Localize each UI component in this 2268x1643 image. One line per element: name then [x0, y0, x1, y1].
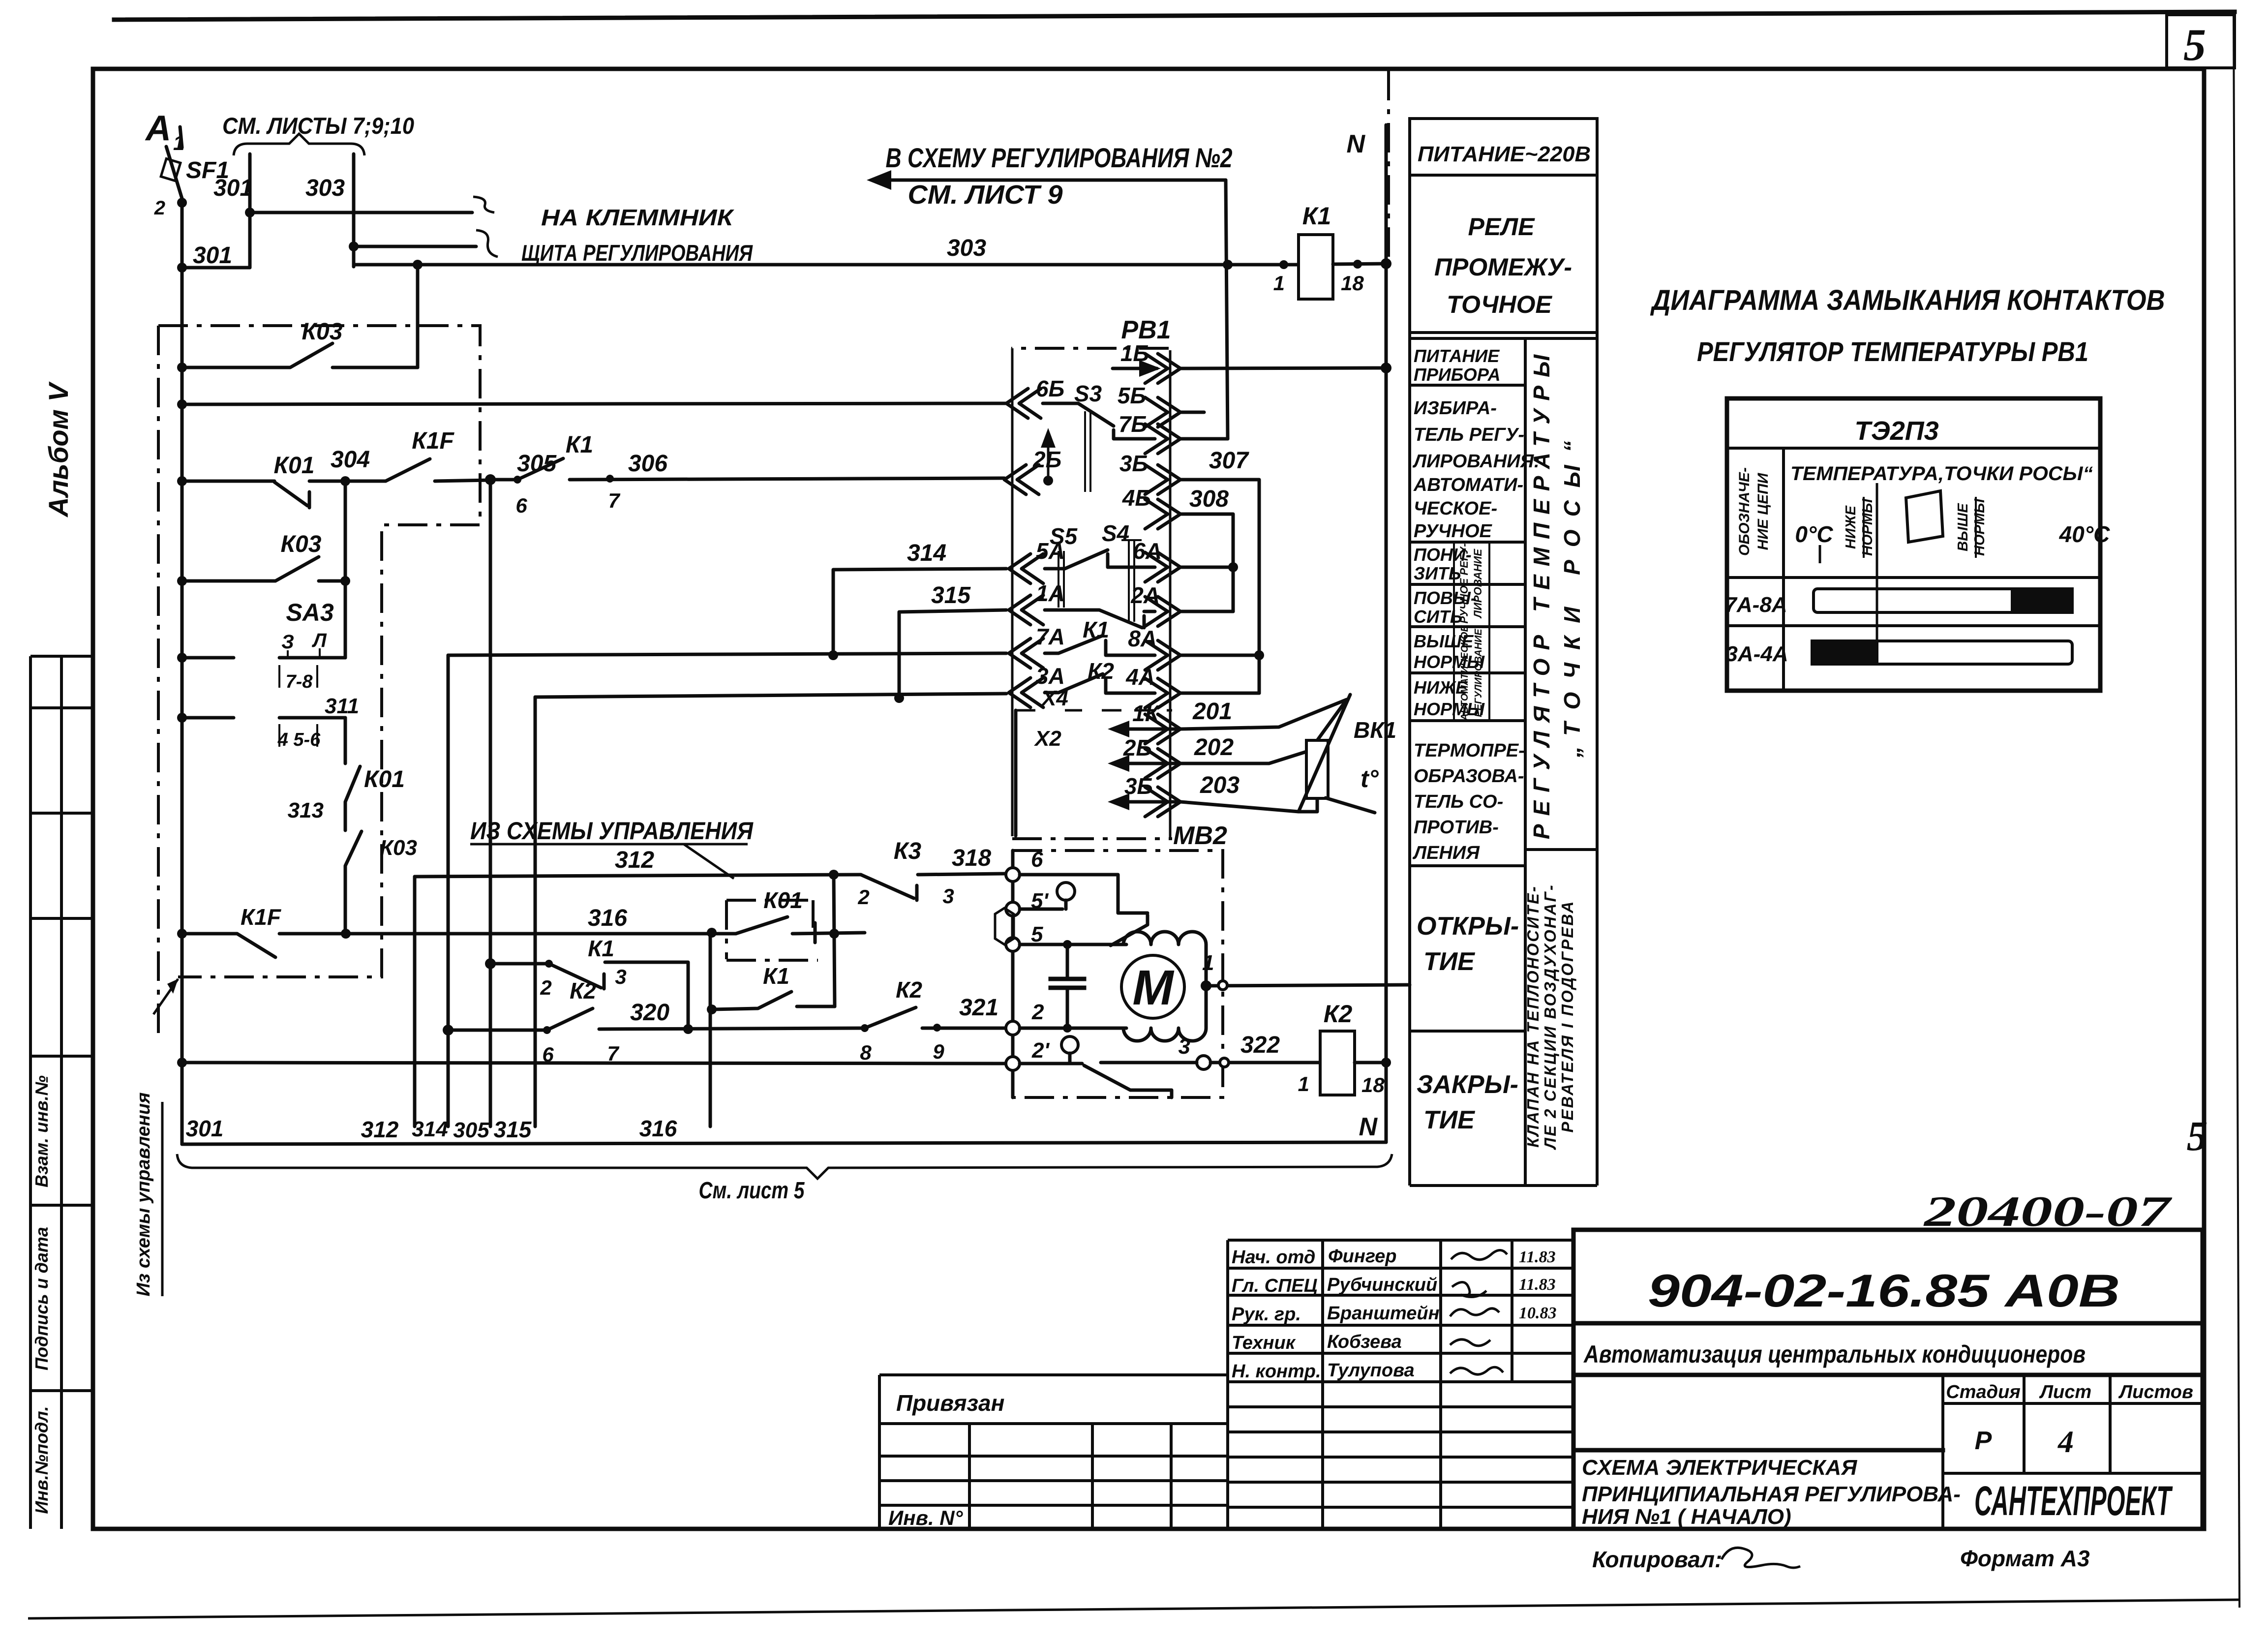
svg-text:1: 1: [1273, 272, 1285, 295]
small brace lower: [476, 230, 498, 257]
svg-text:2: 2: [857, 885, 869, 909]
bar 3A-4A outline: [1812, 641, 2072, 664]
svg-text:Х2: Х2: [1033, 727, 1061, 751]
terminal 3: [1197, 1056, 1210, 1069]
male pin 3B wire 307: [1145, 465, 1180, 494]
svg-text:САНТЕХПРОЕКТ: САНТЕХПРОЕКТ: [1974, 1478, 2173, 1524]
svg-text:ТЕМПЕРАТУРА‚ТОЧКИ РОСЫ“: ТЕМПЕРАТУРА‚ТОЧКИ РОСЫ“: [1790, 463, 2093, 485]
sub column manual auto: [1454, 542, 1489, 721]
svg-text:Лист: Лист: [2039, 1382, 2091, 1402]
svg-text:6Б: 6Б: [1036, 376, 1064, 401]
svg-text:СХЕМА ЭЛЕКТРИЧЕСКАЯ: СХЕМА ЭЛЕКТРИЧЕСКАЯ: [1582, 1456, 1857, 1480]
wire 203: [1180, 798, 1317, 812]
svg-text:301: 301: [213, 175, 253, 201]
svg-text:Гл. СПЕЦ: Гл. СПЕЦ: [1232, 1276, 1318, 1296]
svg-text:ЗАКРЫ-: ЗАКРЫ-: [1417, 1070, 1518, 1099]
svg-text:МВ2: МВ2: [1173, 821, 1227, 850]
terminal 2': [1006, 1057, 1020, 1070]
svg-text:К2: К2: [1324, 1000, 1353, 1028]
svg-text:S5: S5: [1050, 523, 1078, 549]
svg-text:К1: К1: [566, 432, 593, 458]
svg-text:301: 301: [193, 243, 232, 269]
divider device column: [1524, 338, 1527, 1186]
svg-text:ОТКРЫ-: ОТКРЫ-: [1417, 912, 1519, 941]
svg-text:ЩИТА РЕГУЛИРОВАНИЯ: ЩИТА РЕГУЛИРОВАНИЯ: [521, 240, 753, 266]
svg-text:316: 316: [639, 1116, 677, 1141]
brace see sheet 5: [177, 1154, 1392, 1179]
svg-text:5: 5: [2187, 1112, 2208, 1159]
svg-text:АВТОМАТИЧЕСКОЕ: АВТОМАТИЧЕСКОЕ: [1459, 625, 1470, 721]
svg-text:4А: 4А: [1125, 664, 1155, 690]
svg-text:304: 304: [331, 447, 370, 473]
svg-text:7-8: 7-8: [286, 671, 313, 692]
svg-text:РЕЛЕ: РЕЛЕ: [1468, 213, 1535, 241]
node 1 of motor: [1201, 980, 1211, 991]
svg-text:ИЗ СХЕМЫ УПРАВЛЕНИЯ: ИЗ СХЕМЫ УПРАВЛЕНИЯ: [470, 817, 754, 845]
terminal 5: [1006, 938, 1020, 951]
svg-text:7Б: 7Б: [1119, 411, 1147, 437]
wire 7A run from stub 314: [448, 653, 1006, 655]
svg-text:М: М: [1132, 960, 1175, 1015]
svg-text:Подпись и дата: Подпись и дата: [31, 1227, 52, 1370]
svg-text:РЕГУЛИРОВАНИЕ: РЕГУЛИРОВАНИЕ: [1473, 629, 1484, 717]
svg-text:Привязан: Привязан: [896, 1390, 1004, 1416]
female pin 6B: [1006, 389, 1041, 418]
svg-text:7: 7: [608, 489, 620, 512]
contact K1 pins 6 7: [490, 458, 1004, 480]
contact K1F: [386, 459, 490, 481]
N bus vertical: [1385, 125, 1388, 1142]
svg-text:РУЧНОЕ РЕГУ-: РУЧНОЕ РЕГУ-: [1458, 543, 1470, 623]
svg-text:6: 6: [1031, 848, 1043, 872]
svg-text:Х4: Х4: [1040, 686, 1068, 710]
svg-text:301: 301: [186, 1116, 224, 1141]
upper winding: [1123, 932, 1206, 986]
wire 315 upper run to PB1: [899, 610, 1006, 698]
svg-text:ПРОМЕЖУ-: ПРОМЕЖУ-: [1434, 253, 1572, 281]
wire 306 bus to PB1 pin 6B: [182, 403, 1005, 404]
svg-text:314: 314: [412, 1117, 448, 1141]
svg-text:308: 308: [1189, 486, 1229, 512]
svg-text:6А: 6А: [1133, 538, 1162, 564]
PB1 boundary dash-dot: [1011, 347, 1169, 350]
leader arrow to dash line: [153, 979, 178, 1014]
svg-text:ПРОТИВ-: ПРОТИВ-: [1414, 817, 1499, 838]
svg-text:202: 202: [1194, 734, 1234, 761]
wire pin 5 to winding: [1020, 943, 1126, 946]
row separator 1: [1727, 576, 2100, 579]
svg-text:5Б: 5Б: [1118, 383, 1146, 408]
legend table frame: [1410, 175, 1597, 1186]
svg-text:НИЖЕ: НИЖЕ: [1843, 505, 1859, 549]
vertical 311 with contact K01: [345, 718, 360, 830]
svg-text:3А-4А: 3А-4А: [1725, 642, 1788, 666]
svg-text:ПИТАНИЕ: ПИТАНИЕ: [1414, 346, 1500, 366]
wire 321 row with contacts K2: [448, 1008, 865, 1030]
capacitor C: [1066, 944, 1069, 1028]
svg-text:3А: 3А: [1036, 663, 1065, 689]
female pin 7A: [1009, 639, 1043, 668]
svg-text:К03: К03: [281, 531, 322, 557]
male pin 6A: [1145, 552, 1180, 582]
svg-text:К03: К03: [380, 836, 417, 860]
svg-text:ПИТАНИЕ~220В: ПИТАНИЕ~220В: [1418, 142, 1591, 166]
svg-text:6: 6: [515, 494, 527, 517]
svg-text:7А: 7А: [1036, 624, 1065, 649]
svg-text:5: 5: [2183, 20, 2206, 70]
svg-text:Рубчинский: Рубчинский: [1327, 1275, 1437, 1295]
arrow to scheme 2 line: [872, 179, 1226, 182]
svg-text:ПРИНЦИПИАЛЬНАЯ РЕГУЛИРОВА-: ПРИНЦИПИАЛЬНАЯ РЕГУЛИРОВА-: [1582, 1482, 1961, 1506]
svg-text:3Б: 3Б: [1119, 451, 1148, 476]
svg-text:N: N: [1359, 1113, 1378, 1141]
contact K3 pins 2 3: [861, 874, 1006, 900]
svg-text:ТЕЛЬ РЕГУ-: ТЕЛЬ РЕГУ-: [1414, 425, 1524, 445]
vertical tie 318 to 316 to K1 row: [834, 875, 835, 1006]
bottom stub 315: [534, 697, 537, 1126]
wire pin 5': [1020, 908, 1062, 911]
female pin 3A: [1009, 678, 1043, 707]
svg-text:2Б: 2Б: [1123, 735, 1152, 761]
sensor line 2B: [1114, 762, 1179, 765]
female pin 2B: [1004, 465, 1039, 494]
female pin 1A: [1009, 595, 1043, 625]
leader slash to wire 312: [684, 844, 734, 879]
boundary bushing on wire 322: [1220, 1058, 1229, 1067]
wire to terminal strip upper: [250, 211, 472, 214]
svg-text:Инв. N°: Инв. N°: [888, 1506, 964, 1529]
lamp upper: [1057, 882, 1075, 900]
junction dots on bus A: [177, 263, 187, 273]
svg-text:2: 2: [540, 976, 551, 999]
svg-text:ИЗБИРА-: ИЗБИРА-: [1414, 398, 1497, 419]
cabinet boundary dash-dot left vertical: [157, 326, 160, 1033]
wire 322 to coil K2: [1210, 1061, 1320, 1065]
limit switch path from pin 6: [1020, 875, 1148, 945]
svg-text:К1: К1: [1302, 202, 1331, 230]
wire K2 coil to N: [1355, 1061, 1386, 1065]
svg-text:305: 305: [453, 1118, 489, 1142]
svg-text:К01: К01: [364, 766, 405, 792]
wire to K1F contact: [345, 480, 386, 483]
signature squiggles: [1451, 1250, 1507, 1259]
svg-text:К1F: К1F: [412, 428, 454, 454]
junction 304: [340, 476, 350, 486]
wire 312-318 row with contact K3: [415, 875, 861, 877]
setpoint arrow: [1047, 435, 1050, 481]
svg-text:311: 311: [325, 694, 359, 718]
svg-text:Фингер: Фингер: [1328, 1246, 1397, 1267]
svg-text:2: 2: [1031, 1000, 1044, 1024]
svg-text:312: 312: [361, 1117, 399, 1142]
vertical from note corner through 303 to pin 7B: [1226, 180, 1228, 439]
actuator MB2 enclosure: [1013, 851, 1223, 1097]
SA3 row positions 7-8: [182, 656, 345, 660]
row 304-305-306: wire from bus: [182, 480, 274, 483]
svg-text:314: 314: [907, 540, 946, 566]
svg-text:0°С: 0°С: [1795, 521, 1833, 547]
bottom stub 314: [447, 655, 450, 1126]
limit contact lower: [1020, 1064, 1172, 1097]
svg-text:307: 307: [1209, 448, 1249, 474]
svg-text:203: 203: [1200, 772, 1240, 798]
contact K01 in dashed box: [736, 917, 865, 934]
underline of note: [470, 843, 748, 846]
svg-text:2': 2': [1031, 1038, 1050, 1063]
stadia list listov mini table: [1943, 1375, 2203, 1529]
terminal 2: [1006, 1021, 1020, 1035]
svg-text:К2: К2: [570, 978, 596, 1004]
bottom stub 312: [413, 877, 417, 1126]
svg-text:Альбом V: Альбом V: [43, 381, 74, 517]
svg-text:К1F: К1F: [241, 904, 282, 930]
wire 314 upper run to PB1: [833, 569, 1006, 655]
signatures sub table: [1228, 1240, 1573, 1529]
svg-text:2А: 2А: [1130, 582, 1160, 608]
paper bottom edge line: [28, 1600, 2239, 1618]
svg-text:4 5-6: 4 5-6: [277, 730, 321, 750]
svg-text:Взам. инв.№: Взам. инв.№: [31, 1075, 52, 1187]
terminal 6: [1006, 868, 1020, 882]
svg-text:303: 303: [947, 235, 986, 261]
svg-text:10.83: 10.83: [1519, 1304, 1557, 1322]
svg-text:3Б: 3Б: [1124, 773, 1153, 799]
svg-text:Формат А3: Формат А3: [1960, 1546, 2090, 1571]
svg-text:ЛЕ 2 СЕКЦИИ ВОЗДУХОНАГ-: ЛЕ 2 СЕКЦИИ ВОЗДУХОНАГ-: [1541, 883, 1559, 1150]
sensor line 3B: [1114, 800, 1179, 804]
wire 301 horizontal to vertical stub: [182, 154, 250, 268]
wire 3A run from stub 315: [535, 694, 1006, 698]
svg-text:9: 9: [933, 1040, 944, 1063]
svg-text:904-02-16.85 А0В: 904-02-16.85 А0В: [1648, 1265, 2120, 1316]
svg-text:Листов: Листов: [2118, 1382, 2193, 1402]
svg-text:11.83: 11.83: [1519, 1248, 1556, 1266]
svg-text:S4: S4: [1102, 520, 1129, 546]
left column oboznachenie tsepi: [1782, 448, 1785, 691]
svg-text:1К: 1К: [1132, 700, 1160, 726]
svg-text:Р: Р: [1975, 1427, 1992, 1455]
contact KO3 on vertical: [345, 831, 362, 934]
female pin 5A: [1009, 554, 1043, 583]
svg-text:18: 18: [1341, 272, 1364, 295]
center axis line: [1876, 483, 1878, 665]
lower winding: [1123, 986, 1206, 1041]
svg-text:К1: К1: [763, 963, 789, 989]
row separator 2: [1727, 624, 2100, 627]
svg-text:В СХЕМУ РЕГУЛИРОВАНИЯ №2: В СХЕМУ РЕГУЛИРОВАНИЯ №2: [886, 142, 1233, 173]
t deg strike of BK1: [1299, 695, 1350, 812]
svg-text:316: 316: [588, 905, 627, 931]
node junction on bus A: [177, 198, 187, 208]
axis tick at 0: [1819, 545, 1821, 563]
svg-text:1: 1: [1298, 1072, 1309, 1095]
svg-text:ТЭ2П3: ТЭ2П3: [1854, 416, 1938, 446]
small brace upper: [473, 197, 494, 213]
male pin 4B wire 308: [1145, 499, 1180, 529]
svg-text:Л: Л: [311, 630, 327, 651]
svg-text:321: 321: [959, 995, 998, 1021]
male pin 1B: [1145, 354, 1180, 383]
male pin 7B: [1145, 424, 1180, 454]
underline of rotated note: [161, 1102, 164, 1296]
brace over sheets note: [234, 134, 364, 155]
svg-text:315: 315: [494, 1117, 532, 1142]
sheet number box top right: [2167, 15, 2235, 68]
wire 2' long row: [182, 1063, 1005, 1064]
svg-text:4Б: 4Б: [1122, 485, 1151, 511]
S3-S4 link bars: [1085, 411, 1090, 492]
svg-text:2: 2: [154, 197, 165, 219]
svg-text:СМ. ЛИСТ 9: СМ. ЛИСТ 9: [908, 180, 1063, 210]
svg-text:ЧЕСКОЕ-: ЧЕСКОЕ-: [1414, 498, 1497, 519]
svg-text:ТИЕ: ТИЕ: [1423, 1106, 1475, 1134]
contact K1 lower right: [712, 992, 835, 1009]
svg-text:3: 3: [615, 965, 626, 988]
bottom bus to N: [182, 1131, 1386, 1144]
TE2P3 table frame: [1727, 398, 2100, 691]
svg-text:Н. контр.: Н. контр.: [1232, 1361, 1321, 1382]
svg-text:Нач. отд: Нач. отд: [1232, 1247, 1315, 1268]
svg-text:Из схемы управления: Из схемы управления: [133, 1093, 154, 1297]
legend table header box pitanie 220V: [1410, 119, 1597, 175]
svg-text:ПРИБОРА: ПРИБОРА: [1414, 365, 1501, 385]
svg-text:11.83: 11.83: [1519, 1276, 1556, 1294]
svg-text:ЛЕНИЯ: ЛЕНИЯ: [1412, 843, 1480, 863]
wire node 1 to table: [1206, 985, 1410, 986]
svg-text:К3: К3: [894, 838, 922, 864]
wire pin 2: [1020, 1027, 1126, 1030]
svg-text:Кобзева: Кобзева: [1327, 1332, 1402, 1352]
bar 3A-4A filled part: [1811, 639, 1878, 666]
bus A vertical wire 301: [181, 202, 184, 1144]
svg-text:К1: К1: [588, 936, 614, 961]
svg-text:1Б: 1Б: [1120, 340, 1149, 366]
svg-text:ТОЧНОЕ: ТОЧНОЕ: [1447, 291, 1552, 318]
wire 320 row with contact K1 pins 2 3: [490, 962, 688, 1029]
svg-text:7А-8А: 7А-8А: [1724, 593, 1787, 617]
bottom stub 316: [709, 933, 712, 1126]
PB1 connector right edge: [1169, 350, 1172, 837]
selector SA3 column from 304 junction: [344, 481, 347, 581]
svg-text:306: 306: [628, 451, 667, 477]
wire 316 row with contact K1F: [182, 934, 736, 957]
connector X4 X2 boundary: [1016, 709, 1172, 712]
svg-text:Стадия: Стадия: [1946, 1382, 2020, 1402]
svg-text:Автоматизация центральных ко: Автоматизация центральных кондиционеров: [1583, 1340, 2086, 1368]
svg-text:З: З: [281, 631, 294, 653]
svg-text:К2: К2: [896, 977, 922, 1003]
svg-text:РЕВАТЕЛЯ I ПОДОГРЕВА: РЕВАТЕЛЯ I ПОДОГРЕВА: [1558, 900, 1576, 1132]
svg-text:К03: К03: [302, 319, 343, 345]
wire to terminal strip lower: [354, 245, 476, 248]
relay coil K2: [1320, 1031, 1355, 1095]
svg-text:А: А: [145, 109, 171, 148]
svg-text:КЛАПАН НА ТЕПЛОНОСИТЕ-: КЛАПАН НА ТЕПЛОНОСИТЕ-: [1524, 885, 1542, 1148]
svg-text:201: 201: [1192, 699, 1232, 725]
motor M circle: [1121, 955, 1184, 1018]
privyazan block: [879, 1375, 1228, 1529]
svg-text:315: 315: [931, 582, 971, 609]
row line under rele: [1410, 333, 1597, 338]
svg-text:320: 320: [630, 1000, 669, 1026]
svg-text:ВК1: ВК1: [1354, 717, 1396, 743]
svg-text:Бранштейн: Бранштейн: [1327, 1303, 1440, 1324]
svg-text:СМ. ЛИСТЫ 7;9;10: СМ. ЛИСТЫ 7;9;10: [222, 113, 414, 139]
sensor line 1K: [1114, 728, 1179, 731]
svg-text:АВТОМАТИ-: АВТОМАТИ-: [1413, 475, 1523, 495]
svg-text:Инв.№подл.: Инв.№подл.: [31, 1406, 52, 1514]
wire 303 vertical stub: [352, 154, 356, 267]
svg-text:НА КЛЕММНИК: НА КЛЕММНИК: [541, 205, 734, 230]
svg-text:Техник: Техник: [1232, 1333, 1296, 1353]
svg-text:См. лист 5: См. лист 5: [699, 1178, 805, 1204]
boundary dash-dot above N bus: [1387, 71, 1390, 261]
svg-text:Тулупова: Тулупова: [1327, 1360, 1415, 1381]
thermal sensor BK1: [1306, 740, 1328, 798]
male pin 4A: [1145, 678, 1180, 708]
contact K2 pins 8 9: [865, 1007, 1006, 1028]
svg-text:318: 318: [952, 845, 991, 871]
row line under pitanie pribora: [1410, 384, 1525, 387]
svg-text:ВЫШЕ: ВЫШЕ: [1955, 503, 1971, 551]
svg-text:ОБОЗНАЧЕ-: ОБОЗНАЧЕ-: [1736, 467, 1753, 556]
svg-text:8А: 8А: [1128, 626, 1157, 651]
svg-text:303: 303: [305, 175, 345, 201]
boundary bushing on wire 1: [1218, 981, 1227, 990]
row line under izbiratel: [1410, 541, 1525, 544]
svg-text:РЕГУЛЯТОР ТЕМПЕРАТУРЫ РВ1: РЕГУЛЯТОР ТЕМПЕРАТУРЫ РВ1: [1697, 336, 2088, 367]
wire from 303 down to KO3 contact: [416, 265, 420, 367]
svg-text:322: 322: [1240, 1032, 1280, 1058]
junction 305: [485, 474, 496, 485]
terminal 5': [1006, 902, 1020, 916]
svg-text:312: 312: [615, 847, 654, 873]
svg-text:8: 8: [860, 1041, 872, 1064]
svg-text:ТЕЛЬ СО-: ТЕЛЬ СО-: [1414, 791, 1503, 812]
stamp side column boxes: [30, 656, 93, 1529]
contact KO3 upper: [182, 343, 418, 367]
svg-text:ТЕРМОПРЕ-: ТЕРМОПРЕ-: [1414, 740, 1525, 761]
bar 7A-8A filled part: [2011, 587, 2074, 614]
dashed enclosure around K01: [726, 900, 818, 960]
cam hexagon: [995, 908, 1014, 944]
S5-S4 link bars: [1058, 551, 1064, 608]
svg-text:1: 1: [1202, 951, 1214, 975]
svg-text:Рук. гр.: Рук. гр.: [1232, 1304, 1301, 1325]
divider above schema name: [1573, 1448, 1943, 1453]
setpoint parallelogram: [1906, 491, 1943, 542]
wire 202: [1180, 752, 1306, 763]
breaker SF1: [166, 147, 183, 202]
bottom stub 305: [489, 480, 492, 1126]
svg-text:4: 4: [2057, 1424, 2074, 1459]
svg-text:РУЧНОЕ: РУЧНОЕ: [1414, 521, 1493, 542]
cabinet boundary dash-dot box around KO3: [158, 326, 480, 977]
svg-text:РЕГУЛЯТОР ТЕМПЕРАТУРЫ: РЕГУЛЯТОР ТЕМПЕРАТУРЫ: [1529, 346, 1554, 839]
svg-text:313: 313: [288, 798, 324, 822]
bar 7A-8A outline: [1814, 589, 2072, 612]
wire 201 to sensor BK1: [1180, 700, 1347, 740]
male pin 8A: [1145, 640, 1180, 670]
svg-text:ЛИРОВАНИЯ:: ЛИРОВАНИЯ:: [1412, 451, 1540, 472]
svg-text:N: N: [1346, 130, 1365, 158]
contact KO3 lower: [182, 557, 345, 581]
svg-text:ОБРАЗОВА-: ОБРАЗОВА-: [1414, 766, 1524, 787]
title block outer: [1573, 1230, 2203, 1529]
X2 connector bottom rail: [1012, 837, 1172, 840]
svg-text:3: 3: [1179, 1034, 1190, 1059]
svg-text:НОРМЫ: НОРМЫ: [1860, 498, 1875, 556]
